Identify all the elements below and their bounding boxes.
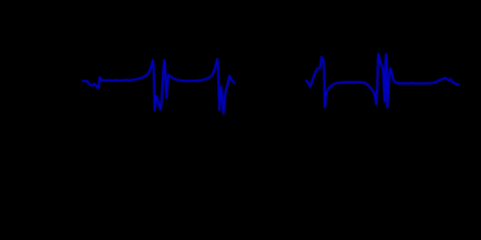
EPR spectrum plot, black background, blue trace [0, 0, 481, 191]
left trace [83, 59, 235, 114]
right trace [306, 54, 458, 108]
